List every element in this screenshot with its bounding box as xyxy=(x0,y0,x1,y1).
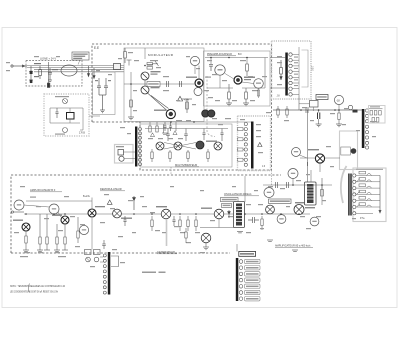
connector J10 pin labels xyxy=(294,57,298,87)
circle A7 xyxy=(310,217,319,226)
connector J4 row 1 xyxy=(239,259,260,263)
switch row 4 xyxy=(353,190,380,196)
svg-text:P.7a: P.7a xyxy=(360,218,365,220)
block lower board dashed outline xyxy=(11,175,281,253)
connector J6 bar xyxy=(251,122,254,169)
wire bus 4 lines into modulator xyxy=(27,66,124,72)
wire branch xyxy=(300,158,340,166)
transformer TR1 xyxy=(234,202,245,228)
relay contact K2 xyxy=(55,128,68,135)
ground G8 xyxy=(267,240,298,251)
connector J3 bracket xyxy=(111,256,119,267)
capacitor C19 gen xyxy=(172,216,175,226)
wire grey loom xyxy=(341,166,347,203)
resistor R9 xyxy=(277,106,279,118)
transistor Q12 (dark) xyxy=(196,141,217,150)
transistor Q20 xyxy=(266,205,275,214)
ground row amp xyxy=(23,250,68,251)
switch row 6 xyxy=(353,203,380,209)
svg-text:MULTIVIBRATEUR: MULTIVIBRATEUR xyxy=(175,163,197,167)
svg-text:OSCILLATEUR 400kc/s: OSCILLATEUR 400kc/s xyxy=(224,192,252,196)
wires aux housing xyxy=(50,108,83,130)
svg-text:E.E: E.E xyxy=(94,46,99,50)
wire B+ drop xyxy=(91,198,93,210)
meter M2 xyxy=(334,95,343,110)
resistor R6 xyxy=(228,84,231,103)
label box CL xyxy=(147,82,160,87)
ground G5 xyxy=(336,124,342,127)
block aux housing (left mid) xyxy=(44,94,89,136)
meter mA xyxy=(348,105,357,112)
node OSCILLATEUR 400kc label xyxy=(224,192,259,196)
resistor R7 xyxy=(245,88,248,103)
node GENERATEUR label xyxy=(157,250,177,254)
warning triangle T3 xyxy=(173,131,177,135)
transistor Q19 xyxy=(201,208,224,219)
connector J10 bar xyxy=(285,53,288,96)
resistor R15 xyxy=(207,149,209,162)
svg-text:DEMODULATEUR: DEMODULATEUR xyxy=(100,187,122,191)
arrow down A1 xyxy=(87,66,89,77)
wire main rail y214 xyxy=(24,213,310,215)
node AMPLIFICATEUR B F label xyxy=(30,188,62,192)
node PREAMPLIFICATEUR BF label xyxy=(207,53,242,56)
circle meter marks xyxy=(17,69,317,230)
relay contact K1 xyxy=(55,96,69,104)
resistor R2 on modulator edge xyxy=(124,48,127,63)
ground G6 xyxy=(203,247,209,250)
resistor R25 xyxy=(195,216,197,231)
connector J10 pins xyxy=(289,53,292,96)
resistor R20 xyxy=(64,224,66,250)
resistor R1 in filter xyxy=(39,66,42,79)
wire cross-coupling xyxy=(145,129,228,150)
block connector housing J10 xyxy=(272,41,312,99)
ground G1 xyxy=(128,117,134,120)
wire y122 multivib to connector xyxy=(137,121,251,123)
svg-text:AMPLIFICATEUR B F: AMPLIFICATEUR B F xyxy=(30,188,56,192)
capacitor C15 xyxy=(287,182,289,188)
transistor Q10 xyxy=(156,142,164,150)
resistor R16 xyxy=(25,231,27,250)
transistor Q5 output (dark) xyxy=(154,110,215,118)
connector J4 row 3 xyxy=(239,272,260,276)
wire to J4 xyxy=(236,244,238,252)
label box FILTRE ANTIPARASITE xyxy=(72,52,89,65)
meter M3 xyxy=(292,148,308,159)
capacitor C5 xyxy=(179,81,181,87)
wire branch x48.5 xyxy=(47,62,50,88)
resistor R8 in J10 box xyxy=(280,60,283,80)
connector J4 header box xyxy=(239,252,256,257)
svg-text:J.10: J.10 xyxy=(311,66,314,71)
crystal XT1 xyxy=(341,147,357,155)
ground G9 xyxy=(162,133,168,134)
capacitor C13 xyxy=(248,217,259,223)
capacitor C22 (electrolytic dark) xyxy=(30,71,33,83)
capacitor C10 xyxy=(184,129,188,142)
switch bank right rail xyxy=(379,176,381,214)
capacitor C4 xyxy=(166,81,168,87)
block quartz panel xyxy=(340,131,358,170)
connector J5 bar (mid-left) xyxy=(135,127,137,167)
resistor R11 xyxy=(338,110,340,124)
block microphone housing xyxy=(115,145,134,164)
resistor cluster right of J2 xyxy=(369,106,386,124)
capacitor C2 in filter xyxy=(48,68,52,81)
meter M1 xyxy=(190,56,199,74)
choke coil (ellipse feedthrough) xyxy=(61,65,77,76)
connector J10 pin wires xyxy=(292,47,299,96)
capacitor C16 xyxy=(163,122,166,131)
transistor Q9 xyxy=(308,149,325,172)
svg-text:LES CONDENSATEURS SONT EN pF,: LES CONDENSATEURS SONT EN pF, RESIST. EN… xyxy=(10,291,58,294)
wire demod grey drop xyxy=(166,219,168,246)
wire amp top xyxy=(24,201,92,217)
svg-text:GENERATEUR: GENERATEUR xyxy=(157,250,175,254)
connector J4 row 5 xyxy=(239,284,260,288)
ground G7 xyxy=(237,232,243,233)
connector J5 pins xyxy=(139,128,142,166)
junction box at bus entry xyxy=(114,64,121,70)
wire hf rail y185 xyxy=(263,170,332,205)
transistor Q1 modulator xyxy=(141,71,161,80)
transistor Q14 (dark) xyxy=(13,220,30,232)
transistor Q11 xyxy=(174,142,182,150)
resistor R22 xyxy=(151,216,153,231)
output filter cluster xyxy=(85,218,104,262)
circle A1 amp xyxy=(14,200,24,210)
label box osc2 xyxy=(222,204,232,208)
block input filter (top-left) xyxy=(26,61,82,87)
capacitor bank inside sub-box xyxy=(93,72,116,115)
wire diagonal to output stage xyxy=(148,93,169,111)
value label smudges xyxy=(6,52,376,267)
switch bank header labels xyxy=(356,169,383,170)
component box below J10 xyxy=(299,101,318,112)
wire vertical x301 xyxy=(307,110,309,182)
capacitor C18 demod xyxy=(123,216,126,226)
transistor Q7 preamp (dark ring) xyxy=(234,76,255,84)
capacitor C20 multivib xyxy=(202,129,205,141)
resistor R27 xyxy=(321,178,324,196)
wire preamp internals xyxy=(220,74,260,99)
value labels amp xyxy=(20,256,66,257)
ground G4 xyxy=(316,124,322,127)
transistor Q21 xyxy=(294,202,306,215)
transistor Q2 modulator xyxy=(141,80,160,94)
node MULTIVIBRATEUR label xyxy=(175,163,199,167)
wire preamp mid rail xyxy=(207,87,265,89)
arrow down A2 xyxy=(93,68,95,79)
capacitor C1 in filter xyxy=(29,66,33,83)
wire mod meter drop xyxy=(145,48,199,79)
block central connector housing xyxy=(238,116,271,171)
capacitor C14 xyxy=(276,182,278,188)
connector J6 resistors xyxy=(238,128,245,162)
connector J4 row 7 xyxy=(239,297,260,301)
warning triangle T5 xyxy=(107,200,112,204)
svg-text:+24v: +24v xyxy=(184,100,190,102)
transistor Q13 xyxy=(214,142,222,150)
connector J6 pins xyxy=(244,122,247,166)
connector J4 row 6 xyxy=(239,290,260,294)
transistor Q4 circle xyxy=(194,88,202,96)
transistor Q3 (dark ring) xyxy=(186,77,203,88)
capacitor C17 xyxy=(169,122,172,131)
node AMPLIFICATEUR 85 a 400 label xyxy=(275,245,313,248)
resistor R4 xyxy=(182,99,192,113)
label box osc1 xyxy=(221,198,239,202)
svg-text:Z.R.B: Z.R.B xyxy=(79,133,85,135)
shield dashed line xyxy=(207,76,215,137)
block preamp inner box xyxy=(204,51,271,106)
resistor R12 xyxy=(151,149,153,162)
warning triangle T1 xyxy=(177,96,189,101)
capacitor C12 xyxy=(102,240,106,249)
capacitor C8 (dark) xyxy=(318,110,320,124)
junction dots rails xyxy=(25,57,323,215)
circle A5 xyxy=(277,215,286,224)
wire preamp top rail xyxy=(205,58,268,89)
resistor R19 xyxy=(56,224,58,250)
switch row 3 xyxy=(353,184,380,190)
resistor row under modulator xyxy=(149,122,176,133)
junction dots rail xyxy=(300,109,340,111)
resistor R18 xyxy=(46,214,48,250)
rotor symbol S1 xyxy=(201,233,211,247)
connector J7 double bar xyxy=(348,174,351,216)
wire horizontal y84 xyxy=(124,83,194,85)
bracket J10 xyxy=(302,50,314,87)
block multivibrator box xyxy=(140,124,232,167)
svg-text:AMPLIFICATEUR 85 a 400 kc/s: AMPLIFICATEUR 85 a 400 kc/s xyxy=(275,245,311,248)
resistor R21 xyxy=(77,217,79,243)
capacitor C21 multivib xyxy=(220,129,223,142)
switch row 5 xyxy=(353,197,380,203)
capacitor C11 xyxy=(55,108,58,118)
circle A4 xyxy=(264,188,274,198)
svg-text:B+24v: B+24v xyxy=(83,195,91,198)
transistor Q17 xyxy=(113,209,132,219)
wire osc feed xyxy=(200,176,245,228)
block modulator inner box xyxy=(124,48,204,122)
wire link vertical between blocks xyxy=(171,167,272,185)
svg-text:NOTA : TENSIONS RELEVEES AU CO: NOTA : TENSIONS RELEVEES AU CONTROLEUR C… xyxy=(10,285,66,288)
label box T2 xyxy=(316,95,328,100)
svg-text:B.F: B.F xyxy=(238,53,242,56)
block switch bank housing xyxy=(353,168,386,222)
legend nota xyxy=(10,284,66,294)
wire main rail y110 xyxy=(273,109,362,111)
resistor R3 xyxy=(130,100,133,107)
resistor R24 xyxy=(187,216,189,231)
resistor network modulator input xyxy=(127,60,159,69)
resistor R23 xyxy=(179,216,181,231)
value labels filter xyxy=(34,63,58,77)
resistor R26 xyxy=(261,216,263,230)
wire J10 down xyxy=(298,96,300,111)
capacitor C6 xyxy=(209,65,213,72)
capacitor C7 xyxy=(306,107,308,113)
terminal input left xyxy=(11,211,24,213)
transistor Q8 preamp circle xyxy=(254,79,264,89)
svg-text:MODULATEUR: MODULATEUR xyxy=(148,53,174,57)
label box DM xyxy=(269,199,292,204)
capacitor C9 xyxy=(166,129,170,142)
node DEMODULATEUR label xyxy=(100,187,125,191)
switch row 1 xyxy=(353,171,380,177)
resistor R17 xyxy=(39,214,41,250)
resistor R10 xyxy=(286,106,288,118)
terminal E (left input) xyxy=(11,65,27,67)
circle A2 amp xyxy=(49,204,59,214)
transistor Q18 xyxy=(156,206,171,219)
warning triangle T4 xyxy=(258,143,262,147)
connector J4 bar xyxy=(236,258,239,301)
transistor Q15 (dark) xyxy=(52,215,69,225)
relay coil (dark box) xyxy=(67,113,75,120)
connector J4 row 2 xyxy=(239,266,260,270)
connector J4 row 4 xyxy=(239,278,260,282)
circle A3 amp xyxy=(79,225,88,234)
switch row 7 xyxy=(353,212,373,215)
wire housing to connector xyxy=(89,115,100,117)
svg-text:-18: -18 xyxy=(336,99,340,103)
oscillator circle preamp xyxy=(215,65,225,75)
resistor R5 xyxy=(246,64,249,76)
svg-text:PREAMPLIFICATEUR: PREAMPLIFICATEUR xyxy=(207,53,232,56)
transistor Q16 (dark) xyxy=(88,206,105,217)
node PLANCHE label xyxy=(142,272,166,274)
resistor R28 gen xyxy=(185,228,187,243)
connector J3 bar (lower left) xyxy=(108,252,111,295)
transistor Q6 output (dark) xyxy=(166,109,175,118)
microphone MIC xyxy=(116,146,135,161)
diode D2 gen xyxy=(228,210,231,218)
connector J3 pins xyxy=(103,254,106,294)
circle A6 xyxy=(288,169,298,179)
wire preamp to J10 xyxy=(270,58,285,89)
ground G2 xyxy=(226,103,232,106)
transformer TR2 xyxy=(305,182,317,208)
connector J2 pins xyxy=(365,109,368,149)
block E.E dashed outline xyxy=(92,44,272,170)
warning triangle T2 xyxy=(150,133,154,137)
resistor R14 xyxy=(187,150,189,162)
connector J2 bar xyxy=(362,109,365,148)
svg-text:LIGNE + 24 V: LIGNE + 24 V xyxy=(40,57,56,61)
wire vertical x131 xyxy=(130,72,132,117)
ground G3 xyxy=(243,103,249,106)
resistor R13 xyxy=(169,150,171,162)
switch row 2 xyxy=(353,178,380,184)
diode D1 xyxy=(133,196,136,210)
